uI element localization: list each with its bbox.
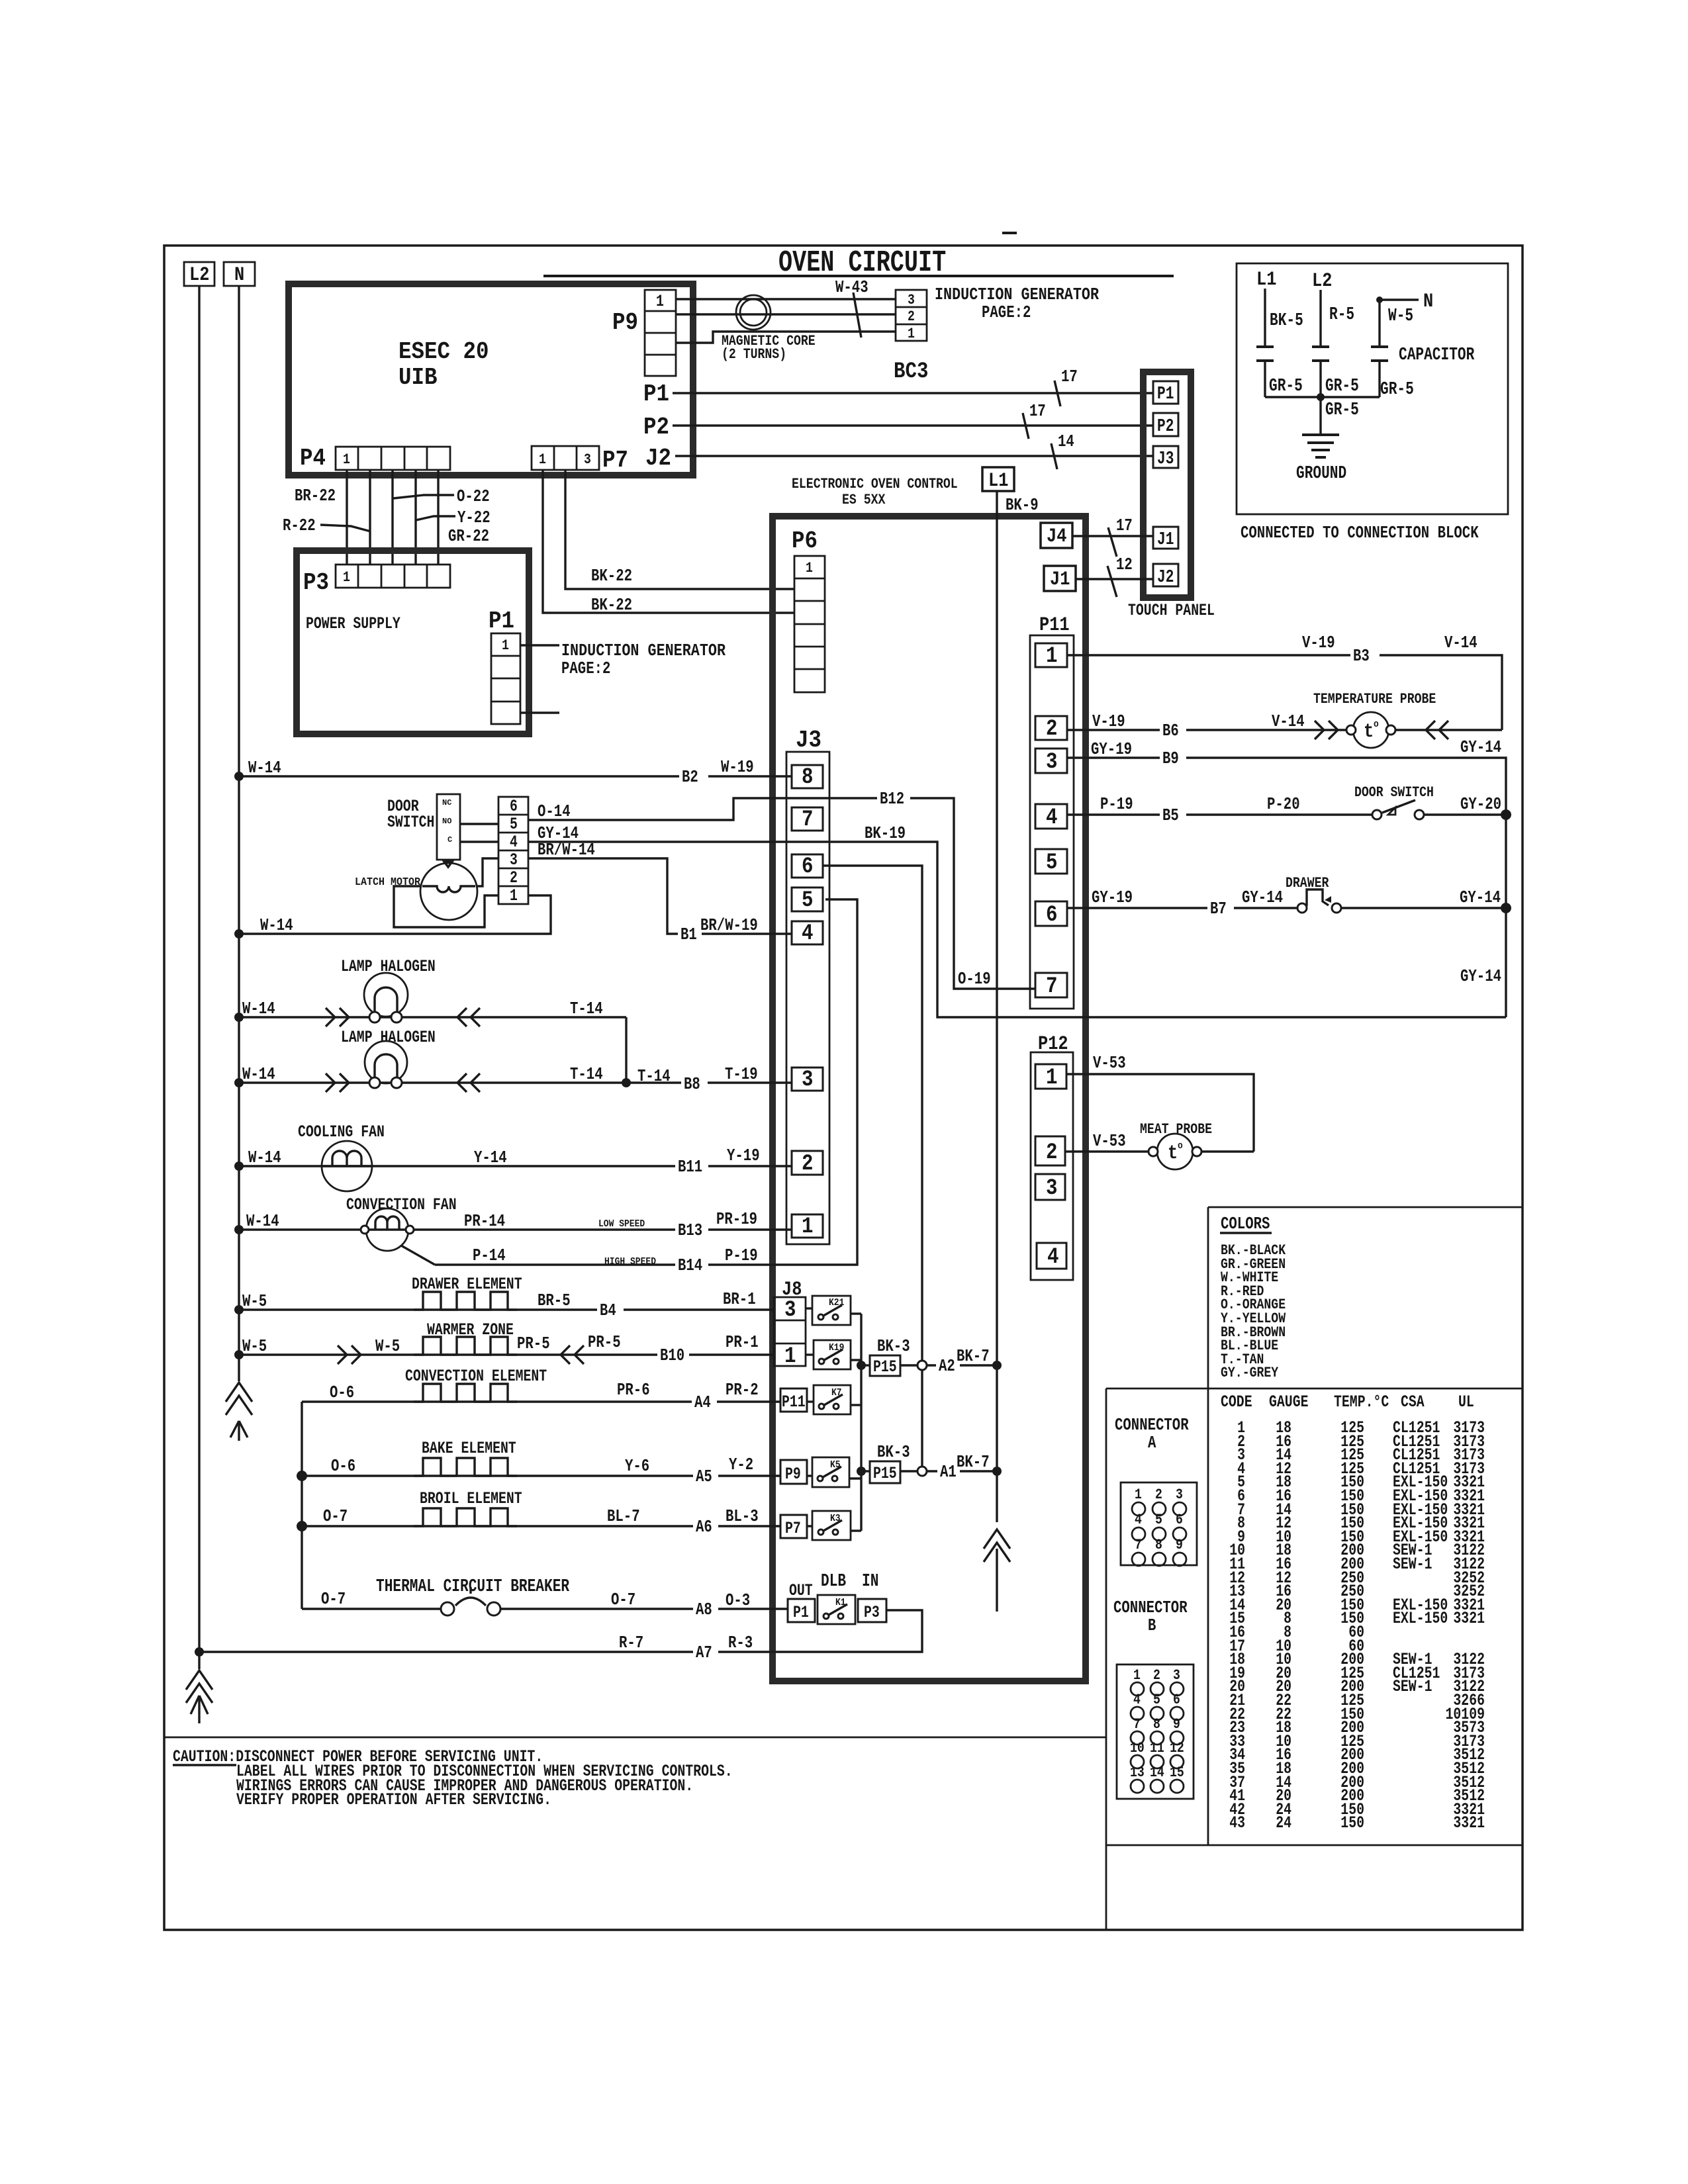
svg-text:P4: P4 — [300, 445, 326, 472]
svg-text:15: 15 — [1170, 1764, 1184, 1781]
svg-text:V-53: V-53 — [1093, 1053, 1126, 1073]
connector chevrons lamp1 left — [326, 1008, 349, 1026]
svg-text:A4: A4 — [694, 1392, 711, 1412]
wire P15 lower to A1 — [900, 1470, 997, 1472]
wire W-14 lamp1 — [239, 1016, 626, 1018]
wire BR/W-14 B1 net (pin3 to J3-4) — [528, 858, 792, 934]
svg-text:PR-19: PR-19 — [716, 1209, 757, 1229]
svg-text:J2: J2 — [645, 445, 671, 472]
svg-text:B2: B2 — [682, 767, 698, 787]
wire P4-3 to P3 — [391, 470, 393, 565]
wire N rail — [238, 286, 240, 1381]
svg-text:o: o — [1178, 1140, 1183, 1152]
label B6 — [1160, 721, 1186, 741]
ground — [1302, 435, 1339, 457]
pin P11-5 — [1035, 849, 1067, 876]
connector A pin diagram — [1121, 1482, 1197, 1566]
svg-text:LOW SPEED: LOW SPEED — [598, 1218, 645, 1230]
svg-text:PR-2: PR-2 — [726, 1380, 759, 1400]
svg-text:6: 6 — [802, 854, 814, 880]
lamp halogen 1 — [341, 957, 436, 1023]
svg-text:P-14: P-14 — [473, 1246, 506, 1265]
svg-text:4: 4 — [1046, 805, 1058, 831]
svg-text:PR-1: PR-1 — [726, 1332, 759, 1352]
svg-text:ES 5XX: ES 5XX — [842, 492, 886, 508]
svg-text:UL: UL — [1458, 1392, 1474, 1412]
door switch S2 — [1354, 784, 1434, 819]
svg-text:CSA: CSA — [1401, 1392, 1425, 1412]
wire O bus vertical — [301, 1402, 303, 1609]
wire J8-3 to K21 — [806, 1307, 812, 1309]
wire L1 bus BK-9 — [996, 491, 998, 1522]
svg-text:B10: B10 — [660, 1345, 684, 1365]
label B11 — [675, 1157, 708, 1177]
svg-text:3: 3 — [784, 1298, 796, 1323]
label B2 — [679, 767, 708, 787]
capacitor block box — [1237, 263, 1508, 514]
svg-text:J2: J2 — [1157, 568, 1174, 588]
wire W-5 drawer element (B4 to J8-3) — [239, 1308, 774, 1310]
connector P11 — [1030, 614, 1074, 1009]
svg-text:L2: L2 — [189, 264, 209, 287]
svg-text:4: 4 — [1135, 1512, 1142, 1528]
svg-text:7: 7 — [1046, 974, 1058, 999]
svg-text:BAKE ELEMENT: BAKE ELEMENT — [422, 1439, 516, 1458]
svg-text:1: 1 — [510, 886, 518, 905]
svg-text:BK-5: BK-5 — [1270, 311, 1303, 331]
wire J2 to touch panel J3 — [675, 455, 1153, 457]
pin P12-4 — [1037, 1243, 1066, 1270]
svg-text:BK-22: BK-22 — [591, 566, 632, 586]
wire P11-2 temperature probe (B6) — [1067, 729, 1351, 731]
drawer element R1 — [412, 1275, 522, 1310]
pin P1 (DLB) — [788, 1599, 815, 1622]
svg-text:4: 4 — [1047, 1245, 1059, 1270]
svg-text:P7: P7 — [785, 1519, 801, 1538]
label B8 — [681, 1074, 708, 1094]
connector chevrons lamp2 left — [326, 1073, 349, 1092]
connector P1 (power supply) — [489, 608, 520, 724]
pin J3-5 — [792, 887, 823, 913]
warmer zone element R2 — [414, 1320, 517, 1355]
svg-text:B8: B8 — [684, 1074, 700, 1094]
slash 17 on P2 wire — [1023, 401, 1046, 439]
pin P11-1 — [1035, 643, 1067, 669]
svg-text:2: 2 — [1046, 717, 1058, 742]
svg-text:1: 1 — [502, 637, 509, 654]
svg-text:N: N — [1423, 291, 1433, 313]
wire P11-4 P-19 (B5) — [1067, 813, 1372, 815]
continuation arrow L2 rail — [191, 1696, 208, 1723]
svg-text:12: 12 — [1170, 1740, 1184, 1756]
svg-text:N: N — [234, 264, 244, 287]
wire J1 to touch J2 — [1076, 578, 1153, 580]
wire P4-5 to P3 — [437, 470, 439, 565]
svg-text:B5: B5 — [1162, 805, 1179, 825]
svg-text:A1: A1 — [940, 1462, 957, 1482]
svg-text:B13: B13 — [678, 1220, 702, 1240]
wire latch motor loop (pin1 to motor left) — [394, 886, 498, 927]
svg-text:CONNECTOR: CONNECTOR — [1113, 1598, 1188, 1617]
svg-text:P-19: P-19 — [725, 1246, 758, 1265]
pin P7 (small box) — [780, 1515, 807, 1538]
cooling fan M2 — [298, 1122, 385, 1191]
svg-text:BROIL ELEMENT: BROIL ELEMENT — [420, 1489, 522, 1508]
svg-text:B7: B7 — [1210, 899, 1227, 919]
junction GR-5 — [1317, 393, 1325, 401]
caution separator line — [164, 1737, 1106, 1739]
svg-text:3321: 3321 — [1453, 1609, 1485, 1628]
wire W-14 B2 to J3-8 — [239, 775, 792, 777]
wire P4-2 to P3 — [369, 470, 371, 565]
svg-text:A8: A8 — [696, 1600, 712, 1619]
svg-text:A7: A7 — [696, 1643, 712, 1662]
svg-text:W-5: W-5 — [1388, 306, 1413, 326]
svg-text:4: 4 — [510, 833, 518, 852]
svg-text:6: 6 — [1173, 1692, 1180, 1708]
svg-text:MEAT PROBE: MEAT PROBE — [1140, 1121, 1212, 1138]
label O-22 with leader — [393, 486, 490, 506]
lamp halogen 2 — [341, 1028, 436, 1088]
label R-22 with leader — [283, 516, 371, 535]
pin P9 (small box) — [780, 1460, 807, 1484]
svg-text:P1: P1 — [793, 1603, 809, 1622]
svg-text:PR-5: PR-5 — [588, 1332, 621, 1352]
label A2 — [936, 1356, 960, 1376]
svg-text:P1: P1 — [643, 381, 669, 408]
svg-text:GROUND: GROUND — [1296, 464, 1346, 484]
wire J3-5 to high speed exit — [769, 899, 857, 1265]
wire K5 out to bus — [849, 1477, 861, 1479]
relay K21 — [812, 1296, 851, 1325]
svg-text:O-22: O-22 — [457, 486, 490, 506]
wire BK-22 upper (P7-2 to P6-2) — [565, 470, 794, 589]
svg-text:6: 6 — [1046, 903, 1058, 928]
svg-text:TEMPERATURE PROBE: TEMPERATURE PROBE — [1313, 691, 1436, 707]
svg-text:2: 2 — [802, 1152, 814, 1177]
svg-text:BR-1: BR-1 — [723, 1289, 756, 1309]
label B14 — [675, 1255, 708, 1275]
svg-text:INDUCTION GENERATOR: INDUCTION GENERATOR — [561, 641, 726, 660]
svg-text:B6: B6 — [1162, 721, 1179, 741]
wire P15 upper to A2 — [900, 1364, 997, 1366]
wire W-14 lamp2 (B8 to J3-3) — [239, 1081, 792, 1083]
svg-text:10: 10 — [1130, 1740, 1145, 1756]
wire P9s to K5 — [807, 1475, 812, 1477]
svg-text:P11: P11 — [782, 1392, 806, 1412]
svg-text:1: 1 — [1133, 1667, 1141, 1684]
svg-text:V-14: V-14 — [1444, 633, 1477, 653]
wire GR-5 left — [1265, 361, 1321, 397]
svg-text:P-20: P-20 — [1267, 794, 1300, 814]
svg-text:B3: B3 — [1353, 646, 1370, 666]
svg-text:P15: P15 — [873, 1357, 897, 1377]
pin P11-7 — [1035, 973, 1067, 999]
wire O-6 bake element (A5) — [302, 1475, 780, 1477]
thermal circuit breaker CB1 — [376, 1577, 570, 1615]
pin J2 (touch panel) — [1153, 564, 1178, 588]
node L2 box — [184, 262, 214, 287]
connector chevrons temp probe right — [1426, 721, 1448, 739]
svg-text:1: 1 — [802, 1214, 814, 1240]
svg-text:3: 3 — [1046, 750, 1058, 775]
svg-text:1: 1 — [343, 451, 350, 468]
wire P11-6 GY-19 drawer (B7) — [1067, 907, 1298, 909]
connector chevrons lamp1 right — [457, 1008, 480, 1026]
wire P4-4 to P3 — [414, 470, 416, 565]
wire W-5 N drop — [1380, 300, 1419, 347]
wire O-7 thermal breaker (A8) — [302, 1608, 441, 1610]
svg-text:PAGE:2: PAGE:2 — [982, 302, 1031, 322]
svg-text:GY-14: GY-14 — [1242, 887, 1283, 907]
svg-text:BK-19: BK-19 — [865, 823, 906, 843]
wire P9-2 to induction — [676, 313, 896, 315]
wire GY-14/BK-19 net (pin4 to GY-14 rail) — [528, 842, 1506, 1017]
svg-text:B9: B9 — [1162, 749, 1179, 768]
svg-text:BK-3: BK-3 — [877, 1336, 910, 1356]
pin J1 (touch panel) — [1153, 527, 1178, 550]
svg-text:P15: P15 — [873, 1464, 897, 1483]
svg-text:P3: P3 — [303, 569, 329, 596]
svg-text:GY-14: GY-14 — [1460, 887, 1501, 907]
svg-text:5: 5 — [1155, 1512, 1162, 1528]
wire P7s to K3 — [807, 1525, 812, 1527]
svg-text:2: 2 — [908, 308, 915, 325]
svg-text:W-14: W-14 — [246, 1211, 279, 1231]
node N box — [224, 262, 255, 287]
svg-text:W-14: W-14 — [248, 1148, 281, 1167]
wire W-14 cooling fan (B11 to J3-2) — [239, 1165, 792, 1167]
junction GY-14 on rail — [1501, 903, 1511, 913]
svg-text:P11: P11 — [1039, 614, 1070, 637]
svg-text:14: 14 — [1058, 432, 1074, 451]
connector P9 (ESEC) — [612, 290, 676, 376]
svg-text:1: 1 — [908, 326, 915, 342]
connector chevrons temp probe left — [1315, 721, 1338, 739]
label B5 — [1160, 805, 1186, 825]
svg-text:B1: B1 — [680, 925, 697, 944]
continuation chevrons N rail — [226, 1383, 252, 1415]
temperature probe RT1 — [1313, 691, 1436, 748]
svg-text:A6: A6 — [696, 1517, 712, 1537]
svg-text:P2: P2 — [1157, 417, 1174, 437]
wire O-14/B12/O-19 net (pin5 to P11-7) — [528, 798, 1035, 989]
svg-text:B11: B11 — [678, 1157, 702, 1177]
svg-text:BK-22: BK-22 — [591, 595, 632, 615]
svg-text:3: 3 — [584, 451, 591, 468]
svg-text:3321: 3321 — [1453, 1813, 1485, 1833]
svg-text:6: 6 — [1176, 1512, 1183, 1528]
svg-text:J3: J3 — [1157, 449, 1174, 469]
svg-text:COLORS: COLORS — [1221, 1214, 1270, 1234]
svg-text:BR-22: BR-22 — [295, 486, 336, 506]
drawer switch S3 — [1286, 875, 1341, 913]
continuation chevrons L1 bus — [984, 1529, 1010, 1562]
svg-text:P-19: P-19 — [1100, 794, 1133, 814]
latch motor M1 — [355, 860, 477, 920]
label CONNECTOR A — [1115, 1415, 1189, 1453]
svg-text:L1: L1 — [988, 470, 1008, 492]
connector door switch 6..1 — [498, 797, 528, 905]
svg-text:1: 1 — [784, 1344, 796, 1369]
svg-text:CODE: CODE — [1221, 1392, 1252, 1412]
svg-text:GY-20: GY-20 — [1460, 794, 1501, 814]
wire latch motor right to pin3 — [476, 858, 498, 886]
wire bus to P15 lower — [861, 1470, 870, 1472]
svg-text:T-14: T-14 — [570, 999, 603, 1019]
svg-text:CONNECTED TO CONNECTION BLOCK: CONNECTED TO CONNECTION BLOCK — [1241, 523, 1479, 543]
svg-text:1: 1 — [343, 569, 350, 586]
label B9 — [1160, 749, 1186, 768]
svg-text:PAGE:2: PAGE:2 — [561, 659, 610, 678]
svg-text:BR/W-19: BR/W-19 — [700, 915, 758, 935]
svg-text:P1: P1 — [489, 608, 514, 635]
ESEC 20 UIB board U1 — [289, 284, 693, 475]
svg-text:3: 3 — [1173, 1667, 1180, 1684]
svg-text:Y-2: Y-2 — [729, 1455, 753, 1475]
crossing circle A2 — [917, 1361, 927, 1370]
svg-text:BL-3: BL-3 — [726, 1506, 759, 1526]
pin J3-2 — [792, 1151, 823, 1177]
svg-text:IN: IN — [862, 1572, 878, 1592]
connector B pin diagram — [1117, 1664, 1194, 1799]
wire P11s to K7 — [807, 1400, 814, 1402]
wire GR-5 right — [1321, 361, 1380, 397]
wire O-6 convection element (A4) — [302, 1400, 780, 1402]
pin J3-6 — [792, 854, 823, 880]
label CONNECTOR B — [1113, 1598, 1188, 1635]
label A5 — [693, 1467, 718, 1486]
wire K19 out to bus — [851, 1359, 861, 1361]
svg-text:17: 17 — [1029, 401, 1046, 421]
relay K19 — [814, 1340, 851, 1369]
wire NO to pin5 — [460, 823, 498, 825]
svg-text:HIGH SPEED: HIGH SPEED — [604, 1256, 656, 1267]
svg-text:GR-5: GR-5 — [1325, 377, 1359, 396]
svg-text:V-19: V-19 — [1302, 633, 1335, 653]
svg-text:BK-3: BK-3 — [877, 1442, 910, 1462]
svg-text:5: 5 — [510, 815, 518, 834]
svg-text:4: 4 — [802, 921, 814, 946]
svg-text:P9: P9 — [612, 309, 638, 336]
svg-text:A2: A2 — [939, 1356, 955, 1376]
svg-text:7: 7 — [1133, 1716, 1141, 1733]
svg-text:Y-14: Y-14 — [474, 1148, 507, 1167]
wire R-5 — [1319, 290, 1321, 347]
relay K5 — [812, 1457, 849, 1487]
electronic oven control board U2 — [773, 516, 1086, 1681]
pin J1 (EOC) — [1044, 566, 1076, 591]
connector P6 — [792, 527, 825, 692]
svg-text:GR-5: GR-5 — [1380, 380, 1414, 400]
svg-text:W-14: W-14 — [242, 999, 275, 1019]
wire P9-1 to induction — [676, 298, 896, 300]
wire P9-3 to induction — [676, 332, 896, 343]
pin P12-2 — [1035, 1136, 1065, 1165]
wire J8-1 to K19 — [806, 1353, 814, 1355]
svg-text:INDUCTION GENERATOR: INDUCTION GENERATOR — [935, 285, 1099, 304]
svg-text:GAUGE: GAUGE — [1269, 1392, 1309, 1412]
convection fan M3 — [346, 1195, 457, 1251]
svg-text:8: 8 — [1153, 1716, 1160, 1733]
svg-text:W-14: W-14 — [242, 1064, 275, 1084]
outer border frame — [164, 246, 1523, 1930]
svg-text:150: 150 — [1340, 1813, 1364, 1833]
pin P12-1 — [1035, 1064, 1066, 1091]
svg-text:8: 8 — [802, 765, 814, 790]
pin P11-3 — [1035, 749, 1067, 775]
svg-text:12: 12 — [1116, 555, 1133, 574]
svg-text:B4: B4 — [600, 1300, 616, 1320]
meat probe RT2 — [1140, 1121, 1212, 1169]
svg-text:GY-14: GY-14 — [1460, 737, 1501, 757]
table box lines — [1106, 1388, 1523, 1930]
pin P15 upper — [870, 1355, 900, 1377]
svg-text:CONNECTOR: CONNECTOR — [1115, 1415, 1189, 1435]
wire BK-22 lower (P7-1 to P6-3) — [543, 470, 794, 613]
svg-text:3: 3 — [510, 850, 518, 870]
svg-text:24: 24 — [1276, 1813, 1291, 1833]
capacitor C1 — [1256, 347, 1274, 361]
wire gauge table rows — [1229, 1418, 1485, 1833]
wire P1 to touch panel — [673, 392, 1153, 394]
svg-text:B: B — [1148, 1615, 1156, 1635]
svg-text:L2: L2 — [1312, 270, 1332, 293]
wire P3 out to R-3 — [769, 1610, 922, 1652]
svg-text:LAMP HALOGEN: LAMP HALOGEN — [341, 1028, 436, 1047]
svg-text:ELECTRONIC OVEN CONTROL: ELECTRONIC OVEN CONTROL — [792, 476, 958, 492]
wire bus to P15 upper — [861, 1364, 870, 1366]
svg-text:J1: J1 — [1050, 569, 1070, 591]
wire high speed P-14 (B14) — [401, 1246, 769, 1265]
convection element R3 — [405, 1367, 547, 1402]
connector chevrons warmer left — [338, 1345, 361, 1364]
svg-text:V-19: V-19 — [1092, 711, 1125, 731]
svg-text:ESEC 20: ESEC 20 — [399, 338, 489, 365]
relay K1 — [818, 1595, 855, 1624]
svg-text:BR/W-14: BR/W-14 — [538, 840, 595, 860]
slash 12 on J1 wire — [1107, 555, 1133, 597]
svg-text:R-5: R-5 — [1329, 305, 1354, 325]
svg-text:Y-19: Y-19 — [727, 1146, 760, 1165]
svg-text:t: t — [1364, 721, 1374, 743]
wire P11-1 V-19/V-14 (B3) — [1067, 655, 1502, 730]
wire T-14 drop — [625, 1017, 627, 1083]
touch panel box — [1143, 372, 1191, 598]
svg-text:1: 1 — [539, 451, 546, 468]
label B1 — [678, 925, 702, 944]
svg-text:3: 3 — [908, 292, 915, 308]
svg-text:GY-19: GY-19 — [1091, 739, 1132, 759]
svg-text:T-14: T-14 — [570, 1064, 603, 1084]
svg-text:P9: P9 — [785, 1465, 801, 1484]
svg-text:VERIFY PROPER OPERATION AFTER: VERIFY PROPER OPERATION AFTER SERVICING. — [236, 1790, 551, 1809]
svg-text:PR-6: PR-6 — [617, 1380, 650, 1400]
svg-text:K21: K21 — [829, 1297, 844, 1308]
connector P12 — [1031, 1033, 1073, 1280]
pin P11 (small box) — [780, 1388, 807, 1412]
svg-text:PR-14: PR-14 — [464, 1211, 505, 1231]
svg-text:14: 14 — [1150, 1764, 1164, 1781]
svg-text:TEMP.°C: TEMP.°C — [1334, 1392, 1389, 1412]
svg-text:o: o — [1374, 719, 1379, 730]
pin J3-1 — [792, 1214, 823, 1240]
svg-text:9: 9 — [1173, 1716, 1180, 1733]
wire P2 to touch panel — [673, 424, 1153, 426]
svg-text:5: 5 — [1046, 850, 1058, 876]
wire C to pin4 — [460, 841, 498, 842]
slash 17 on J4 wire — [1108, 516, 1133, 557]
